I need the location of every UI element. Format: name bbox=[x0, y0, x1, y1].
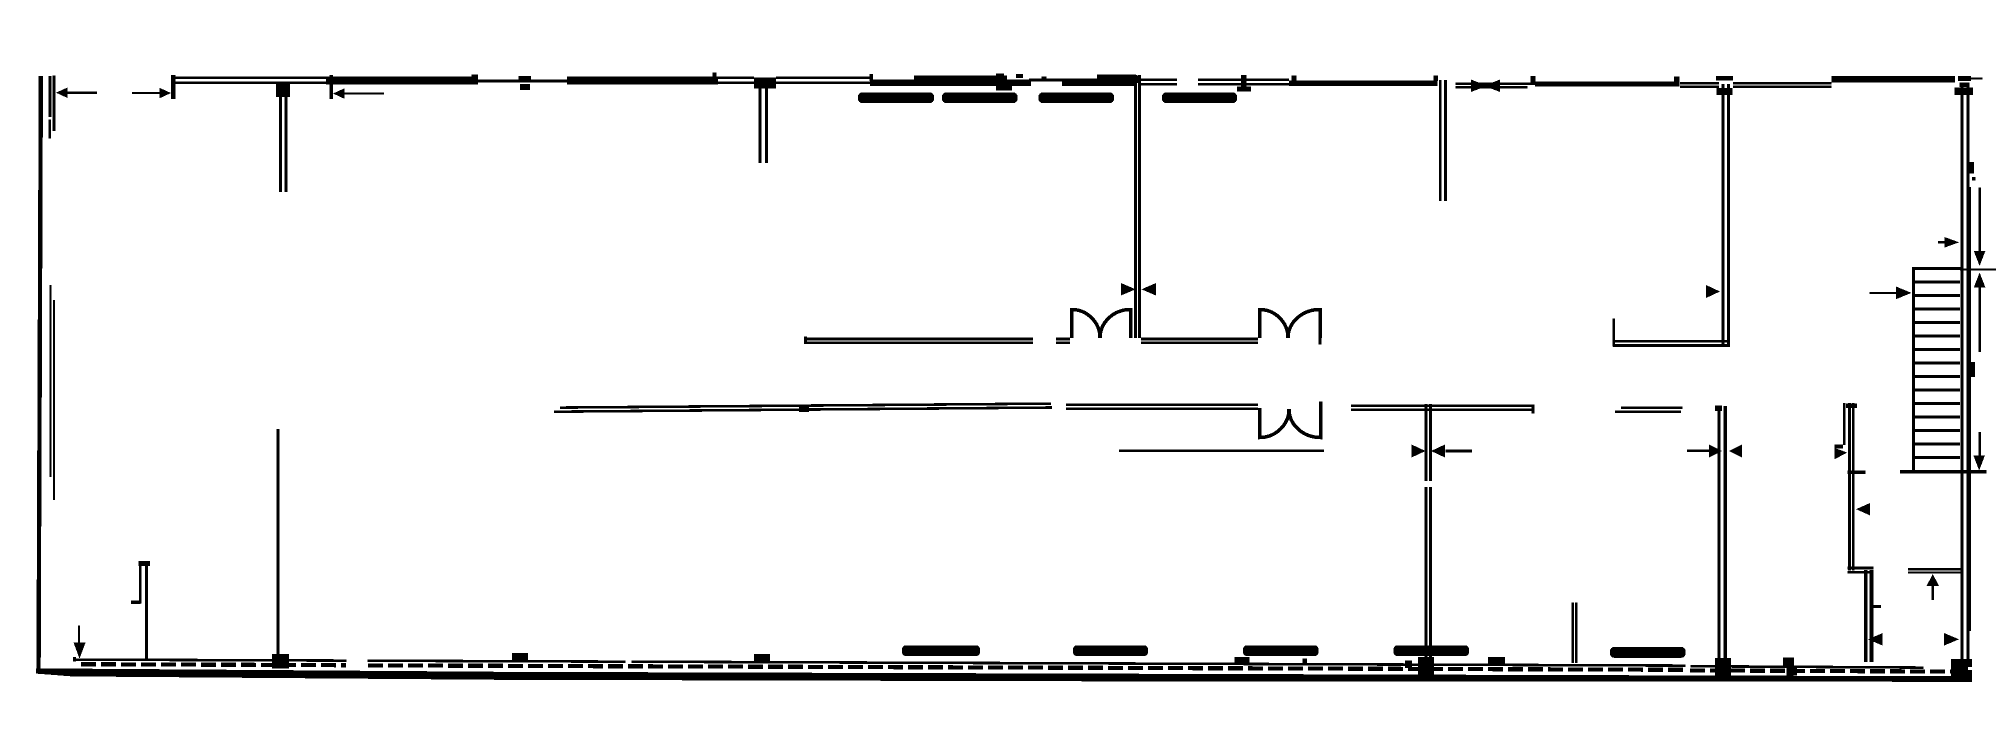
window dash 3 above bottom wall bbox=[1243, 645, 1319, 656]
under-door line H4 bbox=[1119, 450, 1324, 452]
nub below top wall at x=1244 bbox=[1237, 87, 1251, 92]
wall V11 lower left line bbox=[1864, 570, 1868, 662]
wall V5 top cap bbox=[1716, 76, 1733, 81]
staircase bbox=[1900, 267, 1996, 474]
nub below thick B end bbox=[996, 86, 1012, 91]
dimension down arrow upper right bbox=[1974, 188, 1986, 267]
wall V11 upper left line bbox=[1848, 403, 1851, 570]
tick at wall V9 bottom bbox=[1405, 661, 1412, 669]
top right corner cap bbox=[1958, 76, 1971, 81]
window dash 1 above bottom wall bbox=[902, 645, 980, 656]
nub above thin link at x=1044 bbox=[1042, 77, 1047, 80]
wall V1 right line bbox=[285, 86, 288, 192]
wall V9 lower left line bbox=[1424, 487, 1427, 668]
opening cap at x=330 bbox=[330, 75, 334, 99]
top right corner tail line bbox=[1971, 77, 1983, 79]
wall V3 top junction blob bbox=[1130, 76, 1138, 83]
dimension arrow pointing right at top wall start bbox=[132, 88, 171, 99]
nub above thick B at x=1000 bbox=[996, 74, 1004, 78]
junction cross below at x=1786 bbox=[1787, 667, 1798, 676]
top wall step line above segment C bbox=[1097, 75, 1136, 80]
top wall thin link 1029-1062 bbox=[1029, 79, 1062, 82]
top wall thick segment D bbox=[1289, 81, 1438, 87]
wall V5 junction blob bbox=[1717, 88, 1733, 95]
right wall inner line bbox=[1961, 84, 1964, 661]
tick above top wall at x=1290 bbox=[1292, 76, 1297, 84]
top wall thin segment 3 upper line bbox=[776, 77, 870, 80]
nub on right wall bbox=[1968, 162, 1974, 174]
bottom right corner blob bbox=[1951, 659, 1972, 682]
wall V12 left line bbox=[1572, 603, 1574, 663]
wall V9 bottom blob bbox=[1418, 657, 1434, 677]
L-wall horizontal lower line bbox=[1613, 344, 1728, 347]
cross tick on top wall at x=1244 bbox=[1241, 75, 1247, 92]
bottom wall dashed line segment 2 bbox=[368, 665, 1685, 669]
top wall thin segment 5 upper line bbox=[1198, 79, 1289, 82]
left wall inner line upper stub a bbox=[49, 76, 52, 117]
wall V4 left line bbox=[1439, 80, 1442, 201]
top wall start cap bbox=[171, 75, 176, 99]
bowtie marker on top wall at x=1485 bbox=[1471, 80, 1500, 93]
window dash 4 above bottom wall bbox=[1394, 645, 1470, 656]
bottom outer wall bbox=[36, 668, 1972, 682]
wall V1 left line bbox=[279, 86, 282, 192]
wall V11 jog upper line bbox=[1848, 567, 1874, 570]
nub above segment D right end bbox=[1434, 76, 1439, 82]
bottom inner wall line segment 1 bbox=[73, 658, 347, 662]
left wall inner line upper stub a2 bbox=[48, 120, 51, 139]
wall V10 bottom blob bbox=[1715, 658, 1731, 677]
junction nub on bottom wall at x=512 bbox=[512, 653, 528, 662]
wall V10 right line bbox=[1724, 406, 1727, 658]
wall V7 left line bbox=[139, 566, 142, 604]
tick on right dimension line bbox=[1969, 362, 1975, 377]
top wall thick segment C bbox=[1062, 79, 1136, 87]
tick above top wall at x=1534 bbox=[1531, 76, 1536, 83]
top wall thin segment 2 lower line bbox=[718, 82, 754, 85]
junction nub on bottom wall at x=754 bbox=[754, 654, 770, 663]
bottom inner wall line segment 2 bbox=[368, 659, 1686, 667]
top wall thin segment 3 lower line bbox=[776, 82, 870, 85]
top wall thin segment 6 upper line bbox=[1456, 82, 1536, 85]
dimension arrow pointing left at x=333 bbox=[333, 88, 384, 99]
wall H2 segment 3 upper line bbox=[1351, 404, 1534, 407]
bottom inner wall line segment 3 bbox=[1690, 665, 1923, 669]
left wall inner line middle segment a bbox=[50, 285, 52, 477]
wall V2 left line bbox=[759, 86, 762, 163]
wall V9 upper left line bbox=[1424, 404, 1427, 481]
wall V10 top nub bbox=[1715, 406, 1722, 412]
wall V5 right line bbox=[1727, 84, 1730, 347]
wall V7 right line bbox=[145, 566, 148, 659]
top wall thin segment 1 lower line bbox=[176, 82, 327, 85]
bottom wall dashed line segment 3 bbox=[1690, 670, 1957, 671]
wall V11 top cap bbox=[1846, 404, 1857, 409]
wall H5 upper line bbox=[1908, 568, 1961, 570]
arrow pointing left at wall V11 lower bbox=[1868, 633, 1883, 646]
arrow pointing right at wall V5 bbox=[1706, 285, 1720, 298]
thick B upper extension bbox=[914, 76, 1007, 81]
wall V3 left line bbox=[1134, 75, 1137, 338]
double door D2 bbox=[1260, 310, 1321, 339]
top wall thin segment 2 upper line bbox=[718, 77, 754, 80]
top wall thin segment 7 lower line bbox=[1680, 86, 1719, 88]
junction tick on bottom wall at x=1302 bbox=[1303, 659, 1308, 664]
wall H2 segment 4 lower line bbox=[1615, 410, 1681, 413]
wall H1 upper line bbox=[804, 338, 1033, 341]
top wall thin segment 4 lower line bbox=[1141, 83, 1177, 86]
left wall inner line upper stub b bbox=[53, 75, 56, 131]
junction T at x=525 lower blob bbox=[520, 84, 530, 90]
dimension arrow pointing left at left wall bbox=[56, 88, 97, 99]
wall H2 segment 4 upper line bbox=[1621, 406, 1683, 409]
wall V11 upper right line bbox=[1852, 403, 1855, 570]
wall H1 stub lower line bbox=[1056, 342, 1070, 344]
wall V12 right line bbox=[1575, 603, 1577, 663]
nub above wall at x=473 bbox=[472, 75, 479, 79]
dimension down arrow lower right bbox=[1973, 432, 1985, 471]
wall V2 right line bbox=[765, 86, 768, 163]
top wall thick segment A part 1 bbox=[326, 77, 478, 85]
bottom wall dashed line segment 1 bbox=[81, 664, 346, 665]
wall H2 segment 3 end cap bbox=[1532, 405, 1535, 414]
junction T at x=525 upper nub bbox=[519, 76, 532, 82]
top right corner blob bbox=[1960, 82, 1970, 87]
wall V10 left line bbox=[1717, 406, 1720, 658]
window dash 2 above bottom wall bbox=[1073, 645, 1148, 656]
top wall thin segment 6 lower line bbox=[1456, 86, 1528, 88]
junction nub on bottom wall at x=1488 bbox=[1488, 657, 1505, 665]
wall V11 lower right line bbox=[1870, 570, 1874, 662]
tick above top wall at x=870 bbox=[870, 74, 874, 81]
wall H2 segment 1 upper line bbox=[560, 402, 1051, 409]
wall V2 junction blob bbox=[754, 78, 776, 89]
wall H1 lower line bbox=[804, 342, 1033, 344]
tick above segment E right end bbox=[1674, 77, 1680, 82]
junction nub under wall H1 end bbox=[799, 407, 809, 413]
top wall thin link 478-567 bbox=[478, 80, 567, 83]
small gap in inner line bbox=[626, 660, 632, 665]
wall V3 right line bbox=[1138, 75, 1141, 338]
wall V7 top cap bbox=[138, 561, 150, 566]
right wall extra line bbox=[1969, 187, 1971, 631]
door D2 right jamb foot bbox=[1319, 337, 1322, 345]
top wall thin segment 8 upper line bbox=[1733, 82, 1832, 85]
top wall thick segment F bbox=[1832, 76, 1956, 82]
arrow pointing right at top right corner bbox=[1938, 237, 1959, 248]
tick on right wall bbox=[1972, 177, 1976, 181]
top wall thin segment 5 lower line bbox=[1198, 83, 1289, 86]
window dash 1 below top wall bbox=[858, 93, 934, 104]
wall V11 jog lower line bbox=[1848, 571, 1874, 574]
window dash 2 below top wall bbox=[942, 93, 1018, 104]
top wall thick segment A part 2 bbox=[567, 77, 718, 85]
wall H1 stub upper line bbox=[1056, 338, 1070, 341]
wall H2 segment 2 lower line bbox=[1066, 407, 1258, 410]
wall H2 segment 2 upper line bbox=[1066, 403, 1258, 406]
down arrow at bottom left bbox=[74, 625, 86, 658]
wall V8 line bbox=[276, 429, 279, 654]
arrow pointing left at wall V11 upper bbox=[1856, 503, 1870, 516]
window dash 5 above bottom wall bbox=[1610, 647, 1686, 658]
top wall thick segment E bbox=[1535, 82, 1680, 87]
junction nub on bottom wall at x=1234 bbox=[1235, 657, 1250, 665]
bottom inner wall line start cap bbox=[73, 657, 76, 662]
L-wall stub vertical bbox=[1612, 319, 1615, 347]
top wall thin segment 8 lower line bbox=[1733, 86, 1832, 88]
wall H2 segment 1 lower line bbox=[554, 406, 1052, 413]
bowtie marker on wall V9 bbox=[1412, 445, 1473, 458]
top wall thin segment 7 upper line bbox=[1680, 82, 1719, 85]
arrow pointing right at bottom right corner bbox=[1944, 633, 1959, 646]
double door D1 bbox=[1072, 310, 1131, 339]
L-wall horizontal upper line bbox=[1613, 340, 1728, 343]
tick crossing wall V11 bbox=[1848, 471, 1866, 474]
wall between doors upper line bbox=[1141, 338, 1258, 341]
top wall thin segment 4 upper line bbox=[1141, 79, 1177, 82]
tick left of wall V7 bbox=[131, 600, 141, 603]
junction nub on bottom wall at x=1783 bbox=[1783, 658, 1794, 667]
tick above top wall at x=714 bbox=[713, 73, 717, 79]
window dash 3 below top wall bbox=[1039, 93, 1115, 104]
left wall outer line bbox=[36, 76, 43, 673]
top wall thick segment B bbox=[870, 80, 1031, 87]
wall V9 upper right line bbox=[1429, 404, 1432, 481]
up arrow under wall H5 bbox=[1927, 574, 1940, 600]
wall V9 lower right line bbox=[1429, 487, 1432, 668]
wall V4 right line bbox=[1444, 80, 1447, 201]
tick right of wall V11 lower bbox=[1873, 605, 1881, 608]
wall H1 left end cap bbox=[804, 337, 807, 345]
right wall outer line bbox=[1966, 84, 1969, 678]
dimension leader line at wall V11 bbox=[1843, 403, 1845, 445]
double door D3 bbox=[1260, 402, 1321, 438]
wall V5 left line bbox=[1722, 84, 1725, 347]
wall H5 lower line bbox=[1908, 571, 1961, 573]
left wall inner line middle segment b bbox=[53, 300, 55, 500]
dimension up arrow right bbox=[1974, 273, 1986, 353]
wall V8 bottom blob bbox=[272, 654, 289, 669]
bowtie marker on wall V10 bbox=[1687, 444, 1742, 457]
arrow pointing right at wall V11 bbox=[1835, 445, 1844, 449]
arrow pointing right at staircase bbox=[1870, 287, 1912, 300]
window dash 4 below top wall bbox=[1162, 93, 1237, 104]
nub above thick B at x=1018 bbox=[1016, 74, 1023, 78]
wall V1 junction blob bbox=[276, 84, 290, 97]
wall between doors lower line bbox=[1141, 342, 1258, 344]
top wall thin segment 1 upper line bbox=[176, 77, 327, 80]
bowtie marker on wall V3 bbox=[1121, 283, 1156, 296]
wall H2 segment 3 lower line bbox=[1351, 408, 1534, 411]
